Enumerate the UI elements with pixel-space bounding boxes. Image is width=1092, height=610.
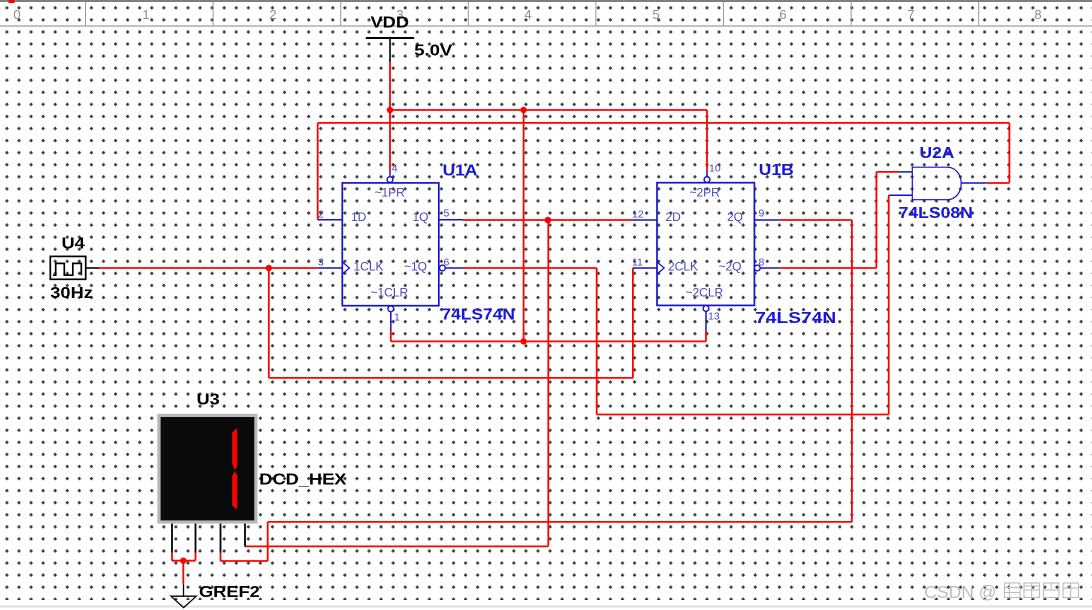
- svg-text:~2PR: ~2PR: [690, 186, 721, 200]
- svg-text:U2A: U2A: [920, 144, 955, 162]
- svg-text:1: 1: [394, 312, 400, 324]
- svg-text:74LS74N: 74LS74N: [441, 305, 515, 323]
- svg-text:GREF2: GREF2: [199, 582, 260, 601]
- svg-text:4: 4: [392, 163, 398, 175]
- svg-text:8: 8: [1034, 7, 1041, 22]
- svg-text:U1B: U1B: [759, 161, 794, 179]
- svg-text:1: 1: [142, 7, 149, 22]
- svg-text:30Hz: 30Hz: [50, 283, 93, 302]
- svg-text:2D: 2D: [666, 210, 682, 224]
- svg-text:5.0V: 5.0V: [414, 41, 453, 59]
- svg-text:74LS74N: 74LS74N: [755, 309, 836, 327]
- svg-text:7: 7: [907, 7, 914, 22]
- svg-text:~1CLR: ~1CLR: [371, 286, 409, 300]
- svg-text:U4: U4: [62, 234, 86, 253]
- svg-text:2: 2: [269, 7, 276, 22]
- svg-text:1Q: 1Q: [413, 210, 429, 224]
- svg-text:5: 5: [444, 208, 450, 220]
- svg-text:CSDN @: CSDN @: [924, 582, 996, 602]
- svg-text:~1PR: ~1PR: [375, 186, 406, 200]
- svg-text:5: 5: [652, 7, 659, 22]
- svg-text:DCD_HEX: DCD_HEX: [259, 469, 347, 488]
- svg-text:VDD: VDD: [371, 13, 409, 32]
- svg-text:3: 3: [318, 257, 324, 269]
- svg-text:1CLK: 1CLK: [354, 260, 384, 274]
- svg-text:~1Q: ~1Q: [404, 260, 427, 274]
- svg-text:~2CLR: ~2CLR: [686, 286, 724, 300]
- svg-text:~2Q: ~2Q: [719, 260, 742, 274]
- svg-text:9: 9: [759, 208, 765, 220]
- svg-text:U1A: U1A: [443, 161, 478, 179]
- svg-text:11: 11: [632, 257, 643, 269]
- svg-text:1D: 1D: [351, 210, 367, 224]
- svg-text:4: 4: [524, 7, 531, 22]
- svg-text:2: 2: [318, 209, 324, 221]
- svg-text:6: 6: [444, 257, 450, 269]
- svg-text:6: 6: [779, 7, 786, 22]
- svg-text:8: 8: [759, 257, 765, 269]
- svg-text:2CLK: 2CLK: [668, 260, 698, 274]
- svg-text:2Q: 2Q: [727, 210, 743, 224]
- svg-text:U3: U3: [197, 389, 220, 408]
- svg-text:74LS08N: 74LS08N: [899, 204, 973, 222]
- svg-text:10: 10: [709, 163, 721, 175]
- svg-text:0: 0: [13, 7, 20, 22]
- svg-text:12: 12: [632, 209, 644, 221]
- svg-text:13: 13: [708, 311, 720, 323]
